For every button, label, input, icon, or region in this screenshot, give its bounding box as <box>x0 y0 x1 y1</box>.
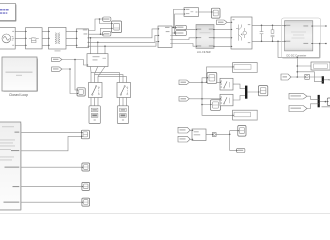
svg-text:DC-DC Converter: DC-DC Converter <box>287 55 307 58</box>
svg-text:LCL FILTER: LCL FILTER <box>197 51 211 54</box>
svg-text:Closed Loop: Closed Loop <box>9 93 28 97</box>
